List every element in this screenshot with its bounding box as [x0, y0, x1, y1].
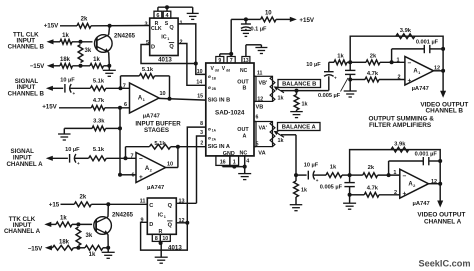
node balance B / 1k divider junction	[295, 89, 299, 93]
op-amp A1 input buffer (uA747)	[130, 83, 160, 113]
svg-text:10: 10	[197, 69, 203, 75]
pin 4 stub	[244, 156, 246, 167]
wire signal A input with arrow	[46, 156, 53, 161]
wire ground to 3.3k	[64, 127, 92, 129]
svg-text:1k: 1k	[301, 188, 307, 194]
wire 2k to CLK pin 3 of IC1	[91, 25, 150, 27]
svg-text:NC: NC	[240, 68, 248, 74]
svg-text:15: 15	[197, 94, 203, 100]
svg-text:CHANNEL B: CHANNEL B	[8, 44, 45, 51]
svg-text:18k: 18k	[59, 239, 70, 245]
svg-text:0.001 µF: 0.001 µF	[416, 40, 439, 46]
svg-text:VA: VA	[258, 150, 265, 156]
svg-text:−: −	[408, 60, 412, 67]
svg-text:µA747: µA747	[413, 201, 430, 207]
wire A1 output to SIG IN B pin 15	[159, 98, 206, 100]
resistor 1k (balance A to ground)	[295, 175, 297, 181]
svg-text:BALANCE A: BALANCE A	[282, 125, 317, 131]
pin 8 box of IC1 bottom	[152, 234, 160, 241]
resistor 5.1k feedback A1	[120, 76, 122, 88]
resistor 5.1k (signal B)	[90, 86, 106, 91]
pin 7 box (Vdd)	[227, 57, 235, 64]
svg-text:FILTER AMPLIFIERS: FILTER AMPLIFIERS	[369, 122, 432, 129]
ground (emitter A)	[107, 249, 109, 253]
svg-text:SeekIC.com: SeekIC.com	[418, 259, 470, 269]
svg-text:IC: IC	[158, 213, 163, 219]
resistor 1k (summing A input)	[326, 173, 342, 178]
wire +15V to 4.7k	[59, 107, 91, 109]
wire ground bus pins 16-1-4	[222, 165, 224, 166]
pin 6 box of IC1	[154, 11, 162, 18]
wire 18k to 1k	[73, 65, 91, 67]
svg-text:OUT: OUT	[237, 127, 249, 133]
potentiometer 1k balance B	[270, 76, 275, 101]
resistor 4.7k (bias)	[91, 105, 105, 110]
wire video output B arrow	[442, 71, 444, 91]
wire -15V with arrow	[47, 63, 54, 68]
svg-text:1k: 1k	[278, 96, 284, 102]
resistor 10 (supply)	[261, 17, 277, 22]
svg-text:5.1k: 5.1k	[142, 67, 154, 73]
wire A1 output node	[434, 70, 444, 72]
svg-text:B: B	[243, 86, 247, 92]
svg-text:10: 10	[162, 236, 168, 242]
IC SAD-1024 analog delay	[206, 63, 254, 156]
potentiometer 1k balance A	[270, 122, 275, 147]
wire signal B input with arrow	[46, 86, 53, 91]
svg-text:0.005 µF: 0.005 µF	[318, 93, 341, 99]
svg-text:−: −	[139, 156, 143, 163]
svg-text:dd: dd	[226, 68, 230, 72]
wire TTK CLK input with arrow	[44, 222, 51, 227]
svg-text:ø: ø	[208, 127, 211, 132]
svg-text:µA747: µA747	[143, 114, 160, 120]
wire feedback top rail B	[350, 36, 443, 71]
svg-text:4.7k: 4.7k	[367, 185, 379, 191]
node balance A summing junction	[294, 173, 298, 177]
svg-text:10: 10	[160, 91, 166, 97]
resistor 3.9k feedback A	[391, 147, 409, 152]
resistor 4.7k (to pin 2 A)	[350, 194, 365, 196]
wire 1k to emitter	[104, 65, 110, 67]
svg-text:6: 6	[256, 115, 259, 121]
svg-text:4: 4	[246, 158, 249, 164]
wire 1k to base of Q2	[72, 223, 92, 225]
wire A2 output up to SIG IN A	[166, 167, 178, 169]
resistor 3.3k (bias)	[92, 126, 106, 131]
svg-text:0.001 µF: 0.001 µF	[415, 152, 438, 158]
resistor 2k (clock A collector)	[74, 202, 91, 207]
node bias junction bottom	[118, 126, 122, 130]
ground (IC1 set/reset B)	[187, 12, 199, 14]
op-amp A2 input buffer (uA747)	[136, 153, 166, 183]
ground (0.1uF)	[245, 29, 247, 31]
wire A2 pin6 from bias rail	[118, 173, 122, 177]
svg-text:11: 11	[140, 198, 146, 204]
svg-text:D: D	[151, 45, 155, 51]
svg-text:2N4265: 2N4265	[114, 34, 136, 40]
capacitor 0.001 uF feedback A	[388, 161, 390, 175]
node A2 output junction	[176, 145, 180, 149]
svg-text:18k: 18k	[60, 57, 71, 63]
svg-text:5.1k: 5.1k	[93, 147, 105, 153]
svg-text:2A: 2A	[212, 138, 217, 142]
svg-text:R: R	[155, 21, 159, 27]
svg-text:11: 11	[257, 70, 263, 76]
svg-text:1: 1	[167, 37, 169, 41]
node Q/D feedback junction B	[194, 62, 198, 66]
wire pin 8 to ground	[159, 241, 161, 243]
svg-text:1A: 1A	[212, 129, 217, 133]
svg-text:2: 2	[397, 75, 400, 81]
capacitor 0.001 uF feedback B	[391, 49, 393, 62]
capacitor 0.1 uF bypass	[245, 19, 247, 24]
svg-text:µA747: µA747	[412, 86, 429, 92]
svg-text:2: 2	[394, 190, 397, 196]
ground (balance A divider)	[295, 197, 297, 205]
wire balance B wiper	[281, 90, 329, 92]
wire +15 to 2k	[61, 203, 75, 205]
svg-text:10 µF: 10 µF	[60, 77, 75, 83]
svg-text:10 µF: 10 µF	[65, 147, 80, 153]
svg-text:VIDEO OUTPUT: VIDEO OUTPUT	[417, 212, 465, 219]
svg-text:ø: ø	[208, 74, 211, 79]
wire Q pin1 to phi1B pin10	[178, 24, 206, 75]
wire pins 6,4 to ground	[157, 7, 159, 11]
svg-text:10 µF: 10 µF	[306, 62, 321, 68]
svg-text:2k: 2k	[81, 17, 88, 23]
svg-text:+: +	[316, 178, 319, 183]
svg-text:IC: IC	[161, 35, 166, 41]
svg-text:µA747: µA747	[147, 185, 164, 191]
svg-text:5: 5	[256, 142, 259, 148]
resistor 2k (clock B collector)	[77, 23, 91, 28]
wire 1k to emitter A	[103, 247, 108, 249]
capacitor 10 uF (signal A input)	[69, 154, 71, 163]
wire 18k to 1k	[73, 247, 85, 249]
node bias B junction	[79, 64, 83, 68]
svg-text:1k: 1k	[302, 101, 308, 107]
svg-text:4.7k: 4.7k	[93, 98, 105, 104]
capacitor 10 uF (balance B coupling)	[328, 76, 330, 90]
resistor 2k (to pin 1 A)	[350, 174, 363, 176]
svg-text:4.7k: 4.7k	[367, 71, 379, 77]
resistor 1k (emitter B)	[90, 63, 104, 68]
node base B junction	[79, 40, 83, 44]
svg-text:1k: 1k	[93, 57, 100, 63]
ground (balance B)	[296, 110, 298, 112]
svg-text:3: 3	[200, 130, 203, 136]
svg-text:4013: 4013	[158, 57, 172, 64]
svg-text:ø: ø	[208, 85, 211, 90]
wire 4.7k to op-amp pin 6	[105, 107, 130, 109]
svg-text:1k: 1k	[330, 165, 337, 171]
wire node to resistor 10	[246, 18, 261, 20]
node inverting input A junction	[124, 156, 128, 160]
svg-text:+: +	[139, 174, 143, 181]
svg-text:+: +	[73, 91, 76, 96]
svg-text:+15V: +15V	[42, 104, 57, 111]
svg-text:CHANNEL A: CHANNEL A	[6, 161, 43, 168]
resistor 4.7k (to pin 2 B)	[350, 79, 365, 81]
node emitter B junction	[107, 64, 111, 68]
svg-text:ø: ø	[208, 135, 211, 140]
transistor Q2 2N4265 (clock A)	[94, 217, 112, 235]
resistor 1k (base B)	[60, 39, 72, 44]
wire 1k to base of Q1	[72, 41, 93, 43]
capacitor 0.005 uF (filter B)	[349, 62, 351, 70]
wire resistor 10 to +15V arrow	[276, 18, 290, 20]
pin 9 box (Vdd)	[216, 57, 224, 64]
svg-text:SAD-1024: SAD-1024	[215, 109, 245, 116]
resistor 1k (balance B to ground)	[294, 95, 299, 111]
node A1 output junction	[168, 97, 172, 101]
capacitor 0.005 uF (filter A)	[349, 175, 351, 183]
svg-text:0.1 µF: 0.1 µF	[251, 26, 268, 32]
svg-text:Q: Q	[169, 44, 174, 50]
svg-text:1B: 1B	[212, 76, 217, 80]
pin 16 box	[216, 156, 230, 166]
svg-text:10: 10	[265, 11, 272, 17]
wire bias rail to A2 pin 6	[119, 108, 121, 175]
capacitor 10 uF (signal B input)	[64, 84, 66, 93]
wire feedback top rail A	[350, 150, 441, 184]
resistor 18k (B)	[60, 63, 73, 68]
node +15V bypass junction	[244, 17, 248, 21]
ground (filter A)	[349, 195, 351, 203]
svg-text:Q: Q	[168, 203, 173, 209]
wire D pin9 feedback loop A	[141, 222, 188, 250]
svg-text:8: 8	[200, 121, 203, 127]
box BALANCE B	[278, 80, 321, 88]
svg-text:2: 2	[180, 39, 183, 45]
svg-text:SIG IN A: SIG IN A	[208, 144, 230, 150]
svg-text:3.9k: 3.9k	[394, 141, 406, 147]
svg-text:C: C	[149, 203, 153, 209]
wire balance A wiper	[281, 134, 296, 136]
svg-text:6: 6	[156, 13, 159, 19]
node summing A junction	[348, 173, 352, 177]
node summing B junction	[348, 60, 352, 64]
svg-text:OUT: OUT	[237, 79, 249, 85]
svg-text:SIG IN B: SIG IN B	[208, 98, 230, 104]
wire A2 output node	[429, 183, 441, 185]
wire Q pin13 up to phi2A	[176, 202, 196, 204]
wire phi2A pin 3 down to Q of IC1 bottom	[197, 136, 206, 203]
node base A junction	[76, 222, 80, 226]
svg-text:2B: 2B	[212, 87, 217, 91]
svg-text:BALANCE B: BALANCE B	[282, 82, 316, 88]
op-amp A1 output summing (uA747)	[405, 57, 434, 86]
pin 1 box	[230, 156, 239, 166]
svg-text:2k: 2k	[368, 165, 375, 171]
svg-text:+: +	[408, 77, 412, 84]
svg-text:1k: 1k	[62, 33, 69, 39]
svg-text:10 µF: 10 µF	[304, 162, 319, 168]
svg-text:VB: VB	[256, 105, 264, 111]
wire -15V bottom with arrow	[45, 245, 52, 250]
svg-text:+: +	[334, 76, 337, 81]
svg-text:5.1k: 5.1k	[93, 78, 105, 84]
svg-text:1: 1	[233, 159, 236, 165]
svg-text:Q: Q	[168, 222, 173, 228]
svg-text:1k: 1k	[337, 54, 344, 60]
svg-text:A: A	[243, 133, 247, 139]
wire D pin5 feedback loop B	[141, 45, 196, 64]
svg-text:3: 3	[144, 21, 147, 27]
capacitor 10 uF (balance A coupling)	[296, 174, 307, 176]
svg-text:NC: NC	[240, 151, 248, 157]
ground (3.3k bias)	[58, 133, 71, 135]
svg-text:+: +	[403, 191, 407, 198]
svg-text:7: 7	[123, 84, 126, 90]
transistor Q1 2N4265 (clock B)	[95, 35, 113, 53]
resistor 3k (base bias A)	[76, 227, 81, 246]
svg-text:1: 1	[164, 215, 166, 219]
ground (emitter B)	[108, 66, 110, 71]
wire pin 13 to ground	[245, 45, 247, 57]
svg-text:D: D	[149, 222, 153, 228]
svg-text:+15V: +15V	[44, 23, 59, 30]
resistor 18k (A)	[52, 245, 73, 250]
svg-text:CHANNEL B: CHANNEL B	[426, 108, 464, 115]
wire video output A arrow	[439, 184, 441, 201]
node bias A junction	[76, 246, 80, 250]
pin 10 box of IC1 bottom	[160, 234, 170, 241]
wire 2k to CLK pin 11 of IC1 bottom	[91, 203, 147, 205]
svg-text:CHANNEL A: CHANNEL A	[424, 219, 462, 226]
node bias junction top	[118, 106, 122, 110]
svg-text:dd: dd	[215, 68, 219, 72]
svg-text:VB': VB'	[259, 80, 268, 86]
pin 13 box (NC)	[242, 57, 250, 64]
svg-text:1: 1	[396, 57, 399, 63]
svg-text:+15: +15	[49, 202, 60, 209]
node pin1 B junction	[390, 60, 394, 64]
ground (SAD GND)	[244, 167, 246, 174]
ground (IC1 bottom reset)	[160, 243, 162, 257]
resistor 1k (emitter A)	[85, 245, 103, 250]
wire Vdd rail up to +15V node	[230, 19, 232, 54]
ground (pin 13 NC)	[260, 45, 262, 48]
svg-text:−15V: −15V	[30, 63, 45, 70]
svg-text:16: 16	[220, 159, 226, 165]
svg-text:12: 12	[257, 96, 263, 102]
resistor 3k (base bias B)	[78, 45, 83, 63]
svg-text:Q: Q	[169, 25, 174, 31]
wire 5.1k to op-amp pin 7	[106, 87, 130, 89]
resistor 1k (base A)	[56, 222, 72, 227]
svg-text:2k: 2k	[80, 195, 87, 201]
svg-text:+15V: +15V	[299, 17, 314, 24]
wire TTL CLK input with arrow	[47, 39, 54, 44]
resistor 1k (summing B input)	[329, 61, 334, 63]
node pin1 A junction	[387, 173, 391, 177]
wire A2 output to SIG IN A pin 2	[178, 146, 206, 148]
wire phi1A pin 8 down to Qbar of IC1 bottom	[187, 127, 206, 223]
svg-text:CHANNEL B: CHANNEL B	[8, 90, 45, 97]
svg-text:5.1k: 5.1k	[154, 141, 166, 147]
svg-text:3k: 3k	[85, 48, 92, 54]
svg-text:3.3k: 3.3k	[93, 119, 105, 125]
wire/box VA prime (pin6-pin5 frame)	[256, 122, 273, 147]
wire 3.3k to bias rail	[106, 127, 120, 129]
wire Qbar pin2 to phi2B pin14	[178, 44, 206, 86]
svg-text:3k: 3k	[86, 233, 93, 239]
pin 4 box of IC1	[163, 11, 171, 18]
node collector A junction	[106, 202, 110, 206]
svg-text:1k: 1k	[89, 252, 96, 258]
flip-flop IC1 4013 (channel B)	[150, 18, 178, 55]
wire 5.1k to op-amp A2 pin 7	[106, 157, 136, 159]
svg-text:1k: 1k	[278, 138, 284, 144]
wire +15V to resistor 2k	[60, 25, 77, 27]
svg-text:6: 6	[124, 102, 127, 108]
node inverting input B junction	[119, 86, 123, 90]
svg-text:+: +	[77, 161, 80, 166]
svg-text:9: 9	[218, 58, 221, 64]
svg-text:13: 13	[243, 58, 249, 64]
svg-text:2N4265: 2N4265	[112, 213, 134, 219]
svg-text:VA': VA'	[259, 125, 267, 131]
box BALANCE A	[278, 123, 321, 131]
wire pin9-pin7 Vdd junction	[219, 54, 221, 57]
svg-text:2k: 2k	[370, 54, 377, 60]
svg-text:10: 10	[167, 161, 173, 167]
resistor 5.1k feedback A2	[125, 147, 127, 159]
resistor 5.1k (signal A)	[89, 156, 107, 161]
svg-text:S: S	[165, 21, 169, 27]
svg-text:CHANNEL A: CHANNEL A	[4, 228, 41, 235]
svg-text:1k: 1k	[60, 215, 67, 221]
svg-text:8: 8	[155, 236, 158, 242]
svg-text:7: 7	[230, 58, 233, 64]
svg-text:2: 2	[200, 141, 203, 147]
node emitter A junction	[106, 246, 110, 250]
node collector B junction	[108, 24, 112, 28]
ground (filter B)	[349, 80, 351, 92]
resistor 2k (to pin 1 B)	[350, 61, 366, 63]
svg-text:−15V: −15V	[28, 246, 43, 253]
resistor 3.9k feedback B	[396, 34, 415, 39]
op-amp A2 output summing (uA747)	[400, 169, 429, 198]
svg-text:0.005 µF: 0.005 µF	[320, 185, 343, 191]
wire Qbar pin12 to feedback and phi1A	[176, 222, 187, 224]
svg-text:3.9k: 3.9k	[400, 28, 412, 34]
svg-text:14: 14	[196, 80, 202, 86]
wire/box VB prime (pin11-pin12 frame)	[256, 76, 273, 101]
svg-text:7: 7	[130, 153, 133, 159]
flip-flop IC1 4013 (channel A)	[147, 198, 176, 234]
svg-text:STAGES: STAGES	[144, 127, 169, 134]
svg-text:−: −	[403, 173, 407, 180]
svg-text:1: 1	[393, 170, 396, 176]
